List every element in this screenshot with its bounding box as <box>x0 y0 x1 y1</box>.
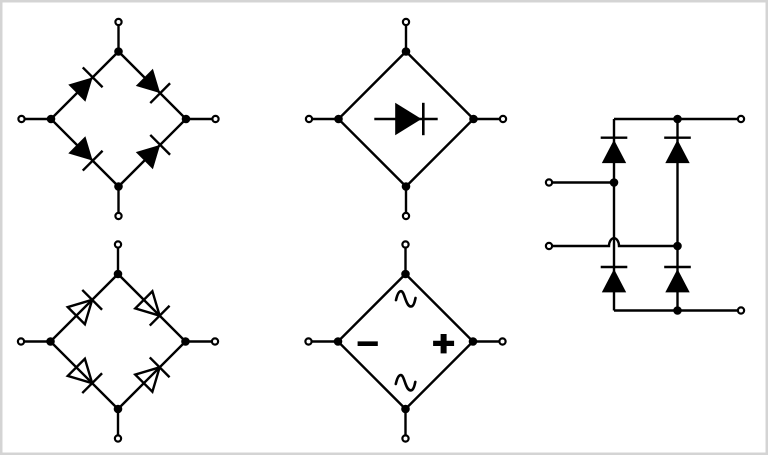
junction node: bridge 1 top vertex <box>114 47 123 56</box>
junction node: bridge 2 left vertex <box>334 115 343 124</box>
diode (outline, left->top edge) <box>66 290 102 326</box>
wire: left leg <box>613 119 615 311</box>
diode (upper left leg, pointing up) <box>601 138 628 163</box>
terminal: DC+ output <box>738 116 744 122</box>
wire: bridge 1 left terminal lead <box>22 118 52 120</box>
wire: AC input 2 with crossover hop <box>549 238 678 246</box>
wire: bridge 3 bottom terminal lead <box>117 409 119 439</box>
junction node: bridge 1 left vertex <box>47 115 56 124</box>
plus polarity mark (DC+) inside bridge 4 <box>433 334 454 353</box>
wire: bridge 4 bottom terminal lead <box>404 409 406 439</box>
diode (upper right leg, pointing up) <box>664 138 691 163</box>
junction node: bridge 2 top vertex <box>402 47 411 56</box>
junction node: bridge 2 right vertex <box>469 115 478 124</box>
AC wave mark (top) inside bridge 4 <box>396 291 415 306</box>
wire: bridge 2 left terminal lead <box>309 118 339 120</box>
wire: right leg <box>676 119 678 311</box>
diode D3 (filled, left->bottom edge) <box>67 135 103 171</box>
terminal: bridge 1 right <box>212 116 218 122</box>
junction node: bridge 1 bottom vertex <box>114 182 123 191</box>
junction node: bridge 2 bottom vertex <box>402 182 411 191</box>
junction node: bridge 3 top vertex <box>114 270 123 279</box>
terminal: bridge 1 top <box>115 19 121 25</box>
junction node: bridge 4 top vertex <box>401 270 410 279</box>
diode symbol inside bridge 2 <box>374 103 437 135</box>
junction node: AC2 on right leg <box>673 242 682 251</box>
wire: bridge 2 top terminal lead <box>405 22 407 52</box>
junction node: AC1 on left leg <box>610 178 619 187</box>
terminal: bridge 2 bottom <box>403 213 409 219</box>
wire: top rail (DC+) <box>614 118 741 120</box>
terminal: bridge 2 right <box>500 116 506 122</box>
junction node: bridge 4 bottom vertex <box>401 405 410 414</box>
wire: bridge 1 right terminal lead <box>186 118 216 120</box>
terminal: AC input 2 <box>546 243 552 249</box>
wire: bridge 2 bottom terminal lead <box>405 187 407 217</box>
junction node: bridge 1 right vertex <box>182 115 191 124</box>
bridge 4: diamond of wires <box>338 274 473 409</box>
wire: bridge 3 top terminal lead <box>117 245 119 275</box>
bridge 1: diamond of wires <box>51 52 186 187</box>
wire: bridge 3 left terminal lead <box>21 340 51 342</box>
wire: bridge 2 right terminal lead <box>474 118 504 120</box>
terminal: bridge 3 right <box>212 338 218 344</box>
terminal: bridge 2 top <box>403 19 409 25</box>
wire: bridge 1 bottom terminal lead <box>117 187 119 217</box>
wire: bridge 1 top terminal lead <box>117 22 119 52</box>
wire: bridge 3 right terminal lead <box>186 340 216 342</box>
wire: AC input 1 <box>549 181 614 183</box>
diode (lower left leg, pointing up) <box>601 267 628 292</box>
junction node: bridge 3 right vertex <box>181 337 190 346</box>
junction node: bridge 4 left vertex <box>334 337 343 346</box>
diode (outline, bottom->right edge) <box>134 357 170 393</box>
wire: bottom rail (DC-) <box>614 309 741 311</box>
diode (outline, top->right edge) <box>134 290 170 326</box>
junction node: bridge 3 bottom vertex <box>114 405 123 414</box>
wire: bridge 4 right terminal lead <box>473 340 503 342</box>
wire: bridge 4 left terminal lead <box>309 340 339 342</box>
diode (outline, left->bottom edge) <box>66 357 102 393</box>
junction node: top of right leg <box>673 115 682 124</box>
AC wave mark (bottom) inside bridge 4 <box>396 375 415 390</box>
terminal: bridge 3 left <box>18 338 24 344</box>
terminal: AC input 1 <box>546 179 552 185</box>
terminal: bridge 1 bottom <box>115 213 121 219</box>
terminal: bridge 4 right <box>499 338 505 344</box>
terminal: bridge 1 left <box>18 116 24 122</box>
diode (lower right leg, pointing up) <box>664 267 691 292</box>
bridge 3: diamond of wires <box>51 274 186 409</box>
minus polarity mark (DC-) inside bridge 4 <box>358 341 378 346</box>
terminal: bridge 2 left <box>306 116 312 122</box>
junction node: bridge 3 left vertex <box>46 337 55 346</box>
terminal: bridge 4 left <box>305 338 311 344</box>
terminal: bridge 4 bottom <box>402 435 408 441</box>
bridge 2: diamond of wires <box>339 52 474 187</box>
terminal: DC- output <box>738 307 744 313</box>
junction node: bottom of right leg <box>673 306 682 315</box>
diode D4 (filled, bottom->right edge) <box>134 135 170 171</box>
terminal: bridge 3 bottom <box>115 435 121 441</box>
terminal: bridge 4 top <box>402 241 408 247</box>
diode D1 (filled, left->top edge) <box>67 67 103 103</box>
wire: bridge 4 top terminal lead <box>404 245 406 275</box>
terminal: bridge 3 top <box>115 241 121 247</box>
diode D2 (filled, top->right edge) <box>134 67 170 103</box>
junction node: bridge 4 right vertex <box>469 337 478 346</box>
